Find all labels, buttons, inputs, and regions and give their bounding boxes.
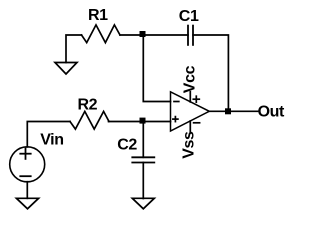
svg-text:Out: Out [258,104,285,121]
wire C1 to output node [193,35,228,111]
capacitor C2 [132,157,154,162]
Vss pin stub [189,121,191,131]
ground (below C2) [132,198,154,209]
Vss minus symbol [194,122,200,124]
capacitor C1 [188,26,193,45]
wire top-left corner to R1 [66,35,82,63]
noninverting input plus symbol [173,117,178,122]
resistor R1 [82,25,121,43]
svg-text:R1: R1 [88,7,108,24]
wire R2 to noninverting input [109,121,171,123]
wire R1 to C1 [120,34,188,36]
svg-text:Vin: Vin [40,132,63,149]
wire Vin to R2 [27,122,70,147]
ground (below Vin) [16,198,38,209]
resistor R2 [70,111,109,129]
voltage source Vin [10,147,45,182]
Vcc pin stub [189,92,191,102]
Vcc plus symbol [193,96,199,102]
node A junction [140,31,146,37]
output node junction [225,108,231,114]
output wire [209,110,257,112]
wire Vin to ground [26,182,28,199]
wire C2 to ground [142,163,144,199]
wire node A down to inverting input [143,35,170,102]
wire node C down to C2 [142,122,144,158]
op-amp U1 [171,92,210,131]
svg-text:Vcc: Vcc [182,65,199,93]
svg-text:Vss: Vss [181,131,198,159]
svg-text:C2: C2 [117,137,137,154]
svg-text:C1: C1 [179,8,199,25]
inverting input minus symbol [174,101,179,103]
node C junction [140,118,146,124]
svg-text:R2: R2 [78,97,98,114]
ground (left of R1) [55,63,77,75]
